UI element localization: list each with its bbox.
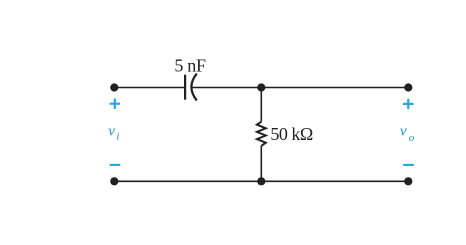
svg-text:o: o	[409, 132, 415, 144]
label vo (output voltage)	[400, 124, 415, 145]
label vi (input voltage)	[108, 124, 119, 143]
bottom wire	[114, 180, 408, 182]
svg-text:v: v	[108, 124, 115, 140]
svg-text:i: i	[116, 131, 119, 143]
resistor R1 top lead	[260, 88, 262, 122]
svg-text:v: v	[400, 124, 407, 140]
terminal dot top-right	[404, 83, 412, 91]
resistor R1 bottom lead	[260, 146, 262, 181]
terminal dot bottom-right	[404, 177, 412, 185]
svg-text:5 nF: 5 nF	[174, 56, 206, 76]
capacitor C1 left plate	[184, 75, 186, 100]
wire top-left segment (input terminal to capacitor)	[114, 87, 185, 89]
minus sign (output polarity)	[403, 164, 414, 166]
capacitor C1 curved plate	[191, 74, 196, 101]
minus sign (input polarity)	[110, 164, 121, 166]
plus sign (output polarity)	[403, 99, 413, 109]
node b (bottom junction dot)	[257, 177, 265, 185]
terminal dot bottom-left	[110, 177, 118, 185]
terminal dot top-left	[110, 83, 118, 91]
plus sign (input polarity)	[110, 99, 120, 109]
wire top-right segment (capacitor to output terminal through node a)	[192, 87, 409, 89]
node a (top junction dot)	[257, 83, 265, 91]
svg-text:50 kΩ: 50 kΩ	[270, 124, 313, 144]
resistor R1 zigzag body	[257, 122, 266, 146]
